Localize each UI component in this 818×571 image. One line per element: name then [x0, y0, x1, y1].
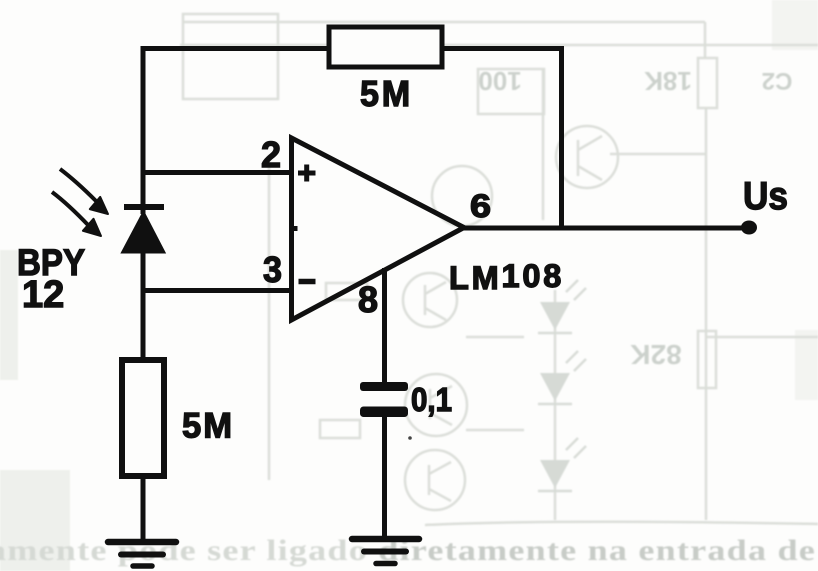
- svg-text:2: 2: [261, 134, 281, 175]
- wire: compensation pin 8 from op-amp bottom edge down to capacitor: [382, 268, 387, 384]
- op-amp plus input marking: [298, 165, 316, 182]
- svg-text:LM108: LM108: [449, 258, 564, 296]
- capacitor C1 0,1 bottom plate: [360, 407, 408, 418]
- svg-text:0,1: 0,1: [411, 381, 452, 418]
- ground symbol (left): [108, 542, 176, 566]
- resistor R2 5M (lower): [122, 360, 164, 476]
- op-amp minus input marking: [299, 279, 316, 285]
- svg-text:C2: C2: [762, 67, 793, 94]
- wire: inverting input (pin 3) horizontal: [143, 288, 293, 293]
- op-amp left edge tick: [291, 226, 298, 231]
- wire: top horizontal from corner to feedback resistor left lead: [141, 46, 331, 51]
- svg-text:Us: Us: [743, 175, 788, 218]
- wire: lower resistor to ground: [141, 476, 146, 543]
- capacitor C1 0,1 top plate: [360, 382, 408, 391]
- svg-text:8: 8: [358, 279, 378, 320]
- resistor R1 5M (feedback): [329, 27, 442, 67]
- svg-text:6: 6: [470, 188, 491, 224]
- svg-text:5M: 5M: [182, 406, 234, 446]
- wire: output from pin 6 to Us terminal: [463, 226, 750, 231]
- svg-text:82K: 82K: [630, 339, 681, 370]
- photodiode D1 BPY12 cathode bar: [124, 204, 164, 210]
- wire: feedback resistor right lead to right corner: [442, 46, 564, 51]
- node: Us output terminal dot: [741, 221, 757, 235]
- wire: non-inverting input (pin 2) horizontal: [143, 170, 293, 175]
- ground symbol (right): [352, 539, 419, 564]
- op-amp U1 LM108 triangle: [292, 138, 465, 320]
- photodiode D1 BPY12 triangle (anode, pointing up): [122, 212, 165, 253]
- svg-text:5M: 5M: [360, 73, 413, 114]
- light arrow 2 into photodiode: [52, 192, 89, 226]
- svg-text:3: 3: [263, 249, 282, 290]
- wire: photodiode anode down to lower resistor: [141, 250, 146, 362]
- wire: right vertical feedback down to output node: [559, 46, 564, 229]
- svg-text:100: 100: [478, 66, 521, 96]
- svg-text:12: 12: [22, 274, 64, 316]
- wire: top-left vertical from feedback corner down to photodiode cathode: [141, 46, 146, 214]
- svg-text:18K: 18K: [644, 66, 692, 96]
- wire: capacitor to ground: [382, 415, 387, 540]
- light arrow 1 into photodiode: [60, 169, 96, 201]
